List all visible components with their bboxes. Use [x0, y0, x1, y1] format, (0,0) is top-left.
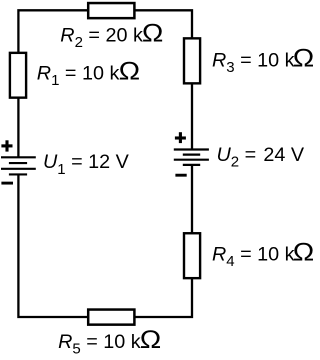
svg-text:Ω: Ω	[293, 44, 313, 72]
svg-text:Ω: Ω	[140, 326, 161, 354]
svg-text:Ω: Ω	[119, 57, 140, 85]
svg-text:Ω: Ω	[293, 238, 313, 266]
svg-text:Ω: Ω	[142, 19, 163, 47]
svg-text:24 V: 24 V	[263, 144, 304, 166]
